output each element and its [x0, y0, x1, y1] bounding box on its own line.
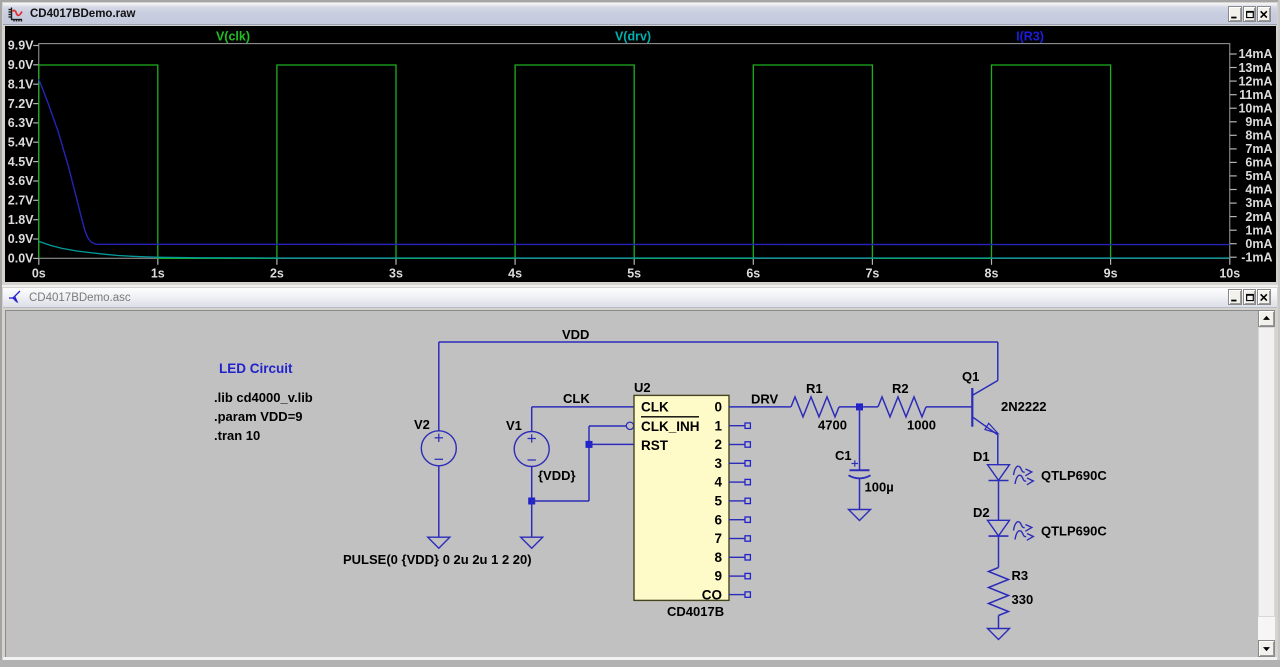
- LED D2: [988, 520, 1010, 536]
- capacitor C1 wire from node: [859, 407, 861, 470]
- svg-text:4: 4: [714, 475, 722, 490]
- junction RST branch: [586, 441, 593, 448]
- svg-text:10s: 10s: [1219, 267, 1240, 281]
- svg-text:R3: R3: [1012, 568, 1029, 583]
- svg-text:5s: 5s: [627, 267, 641, 281]
- svg-text:4.5V: 4.5V: [8, 155, 34, 169]
- svg-text:0mA: 0mA: [1245, 237, 1272, 251]
- svg-text:4700: 4700: [818, 418, 847, 433]
- svg-text:QTLP690C: QTLP690C: [1041, 468, 1107, 483]
- wire V1 top: [531, 407, 533, 432]
- junction DRV/R2/C1 node: [856, 403, 863, 410]
- svg-text:1: 1: [714, 418, 722, 433]
- Q1 emitter diagonal: [972, 417, 998, 435]
- cyan trace V(drv) decay: [39, 241, 1230, 258]
- svg-text:330: 330: [1012, 592, 1034, 607]
- svg-text:CLK_INH: CLK_INH: [641, 419, 700, 434]
- svg-text:2mA: 2mA: [1245, 210, 1272, 224]
- CLK_INH inversion bubble: [626, 422, 633, 429]
- wire V2 top to VDD rail: [438, 342, 440, 431]
- svg-text:6.3V: 6.3V: [8, 116, 34, 130]
- svg-text:100µ: 100µ: [865, 480, 894, 495]
- svg-text:PULSE(0 {VDD} 0 2u 2u 1 2 20): PULSE(0 {VDD} 0 2u 2u 1 2 20): [343, 552, 532, 567]
- svg-text:2s: 2s: [270, 267, 284, 281]
- resistor R2: [878, 397, 926, 417]
- svg-text:0.9V: 0.9V: [8, 232, 34, 246]
- svg-text:6s: 6s: [746, 267, 760, 281]
- U2 unconnected pin stubs with open squares: [729, 423, 750, 597]
- svg-text:D1: D1: [973, 449, 990, 464]
- D2 emission arrows: [1014, 522, 1034, 541]
- svg-text:DRV: DRV: [751, 392, 779, 407]
- svg-text:14mA: 14mA: [1238, 47, 1272, 61]
- svg-text:2.7V: 2.7V: [8, 194, 34, 208]
- svg-text:I(R3): I(R3): [1016, 30, 1044, 44]
- svg-text:{VDD}: {VDD}: [538, 468, 576, 483]
- junction at V1 bottom: [528, 498, 535, 505]
- svg-text:U2: U2: [634, 380, 651, 395]
- svg-text:R1: R1: [806, 381, 823, 396]
- svg-text:V1: V1: [506, 418, 522, 433]
- svg-text:0s: 0s: [32, 267, 46, 281]
- resistor R1: [791, 397, 839, 417]
- svg-text:1.8V: 1.8V: [8, 213, 34, 227]
- svg-text:11mA: 11mA: [1239, 88, 1272, 102]
- svg-text:LED Circuit: LED Circuit: [219, 361, 293, 376]
- wire DRV net from pin 0 to R1: [729, 406, 791, 408]
- wire R3 to ground: [998, 616, 1000, 629]
- wire C1 to ground: [859, 478, 861, 510]
- svg-text:.lib cd4000_v.lib: .lib cd4000_v.lib: [214, 390, 313, 405]
- svg-text:RST: RST: [641, 438, 669, 453]
- wire V2 bottom to ground: [438, 466, 440, 537]
- svg-text:8s: 8s: [985, 267, 999, 281]
- wire V1 bottom: [531, 467, 533, 502]
- svg-text:3s: 3s: [389, 267, 403, 281]
- Q1 emitter arrowhead: [985, 423, 998, 433]
- svg-text:-1mA: -1mA: [1241, 250, 1272, 264]
- C1 plus sign: [852, 460, 859, 466]
- svg-text:7.2V: 7.2V: [8, 97, 34, 111]
- svg-text:.tran 10: .tran 10: [214, 428, 260, 443]
- svg-text:QTLP690C: QTLP690C: [1041, 524, 1107, 539]
- svg-text:9.9V: 9.9V: [8, 39, 34, 53]
- svg-text:9s: 9s: [1104, 267, 1118, 281]
- ground below V1: [521, 537, 543, 548]
- svg-text:7mA: 7mA: [1245, 142, 1272, 156]
- green trace V(clk) square wave: [39, 65, 1111, 258]
- svg-text:VDD: VDD: [562, 327, 589, 342]
- voltage source V1: [514, 432, 549, 467]
- svg-text:9: 9: [714, 569, 722, 584]
- ground below C1: [849, 510, 871, 521]
- svg-text:C1: C1: [835, 448, 852, 463]
- ground below V2: [428, 537, 450, 548]
- capacitor C1: [849, 470, 871, 478]
- wire R2 to Q1 base: [926, 406, 972, 408]
- svg-text:R2: R2: [892, 381, 909, 396]
- window icon: schematic: [8, 290, 23, 305]
- ground below R3: [988, 629, 1010, 640]
- U2 pin name labels: [641, 400, 722, 603]
- wire VDD rail down to Q1 collector: [997, 342, 999, 381]
- wire R1 to junction: [839, 406, 860, 408]
- svg-text:0.0V: 0.0V: [8, 252, 34, 266]
- wire VDD rail: [439, 341, 998, 343]
- LED D1: [988, 465, 1010, 481]
- wire Q1 emitter to D1: [997, 435, 999, 465]
- svg-text:5: 5: [714, 494, 722, 509]
- svg-text:V(drv): V(drv): [615, 30, 651, 44]
- svg-text:V(clk): V(clk): [216, 30, 250, 44]
- transistor Q1 base bar: [971, 388, 973, 427]
- svg-text:3: 3: [714, 456, 722, 471]
- window buttons: [1228, 6, 1242, 22]
- svg-text:CLK: CLK: [563, 391, 590, 406]
- svg-text:7: 7: [714, 531, 722, 546]
- bottom frame: [3, 657, 1277, 660]
- voltage source V2: [421, 431, 456, 466]
- left axis voltage labels: [8, 39, 39, 266]
- D1 emission arrows: [1014, 466, 1034, 485]
- svg-text:6mA: 6mA: [1245, 156, 1272, 170]
- schematic client area: [5, 310, 1258, 657]
- wire junction to right: [532, 500, 589, 502]
- svg-text:D2: D2: [973, 505, 990, 520]
- Q1 collector diagonal: [972, 381, 998, 396]
- svg-text:2: 2: [714, 437, 722, 452]
- right axis current labels: [1230, 47, 1273, 264]
- svg-text:5.4V: 5.4V: [8, 135, 34, 149]
- wire junction to R2: [860, 406, 879, 408]
- wire to CLK_INH bubble: [589, 425, 626, 427]
- svg-text:9.0V: 9.0V: [8, 58, 34, 72]
- svg-text:12mA: 12mA: [1238, 74, 1272, 88]
- wire D2 to R3: [998, 536, 1000, 568]
- svg-text:9mA: 9mA: [1245, 115, 1272, 129]
- resistor R3: [989, 568, 1009, 616]
- blue trace I(R3) decay: [39, 79, 1230, 245]
- IC U2 body CD4017B: [634, 395, 729, 600]
- svg-text:1mA: 1mA: [1245, 223, 1272, 237]
- wire V1 ground stem: [531, 501, 533, 537]
- plot client area: [5, 26, 1276, 282]
- svg-text:CD4017B: CD4017B: [667, 604, 724, 619]
- svg-text:3.6V: 3.6V: [8, 174, 34, 188]
- title bar: [3, 3, 1277, 25]
- svg-text:1000: 1000: [907, 418, 936, 433]
- plot border: [39, 44, 1230, 259]
- svg-text:8.1V: 8.1V: [8, 77, 34, 91]
- svg-text:3mA: 3mA: [1245, 196, 1272, 210]
- svg-text:1s: 1s: [151, 267, 165, 281]
- wire D1 to D2: [998, 481, 1000, 521]
- svg-text:8mA: 8mA: [1245, 129, 1272, 143]
- wire up to CLK_INH: [588, 426, 590, 501]
- title bar (inactive): [3, 288, 1277, 308]
- svg-text:CO: CO: [702, 588, 722, 603]
- svg-text:7s: 7s: [865, 267, 879, 281]
- svg-text:4s: 4s: [508, 267, 522, 281]
- time axis labels: [32, 258, 1240, 280]
- vertical scrollbar: [1258, 310, 1275, 657]
- svg-text:.param VDD=9: .param VDD=9: [214, 409, 303, 424]
- svg-text:Q1: Q1: [962, 369, 979, 384]
- svg-text:6: 6: [714, 512, 722, 527]
- svg-text:5mA: 5mA: [1245, 169, 1272, 183]
- svg-text:0: 0: [714, 400, 722, 415]
- svg-text:4mA: 4mA: [1245, 183, 1272, 197]
- wire CLK net: [532, 406, 634, 408]
- svg-text:2N2222: 2N2222: [1001, 399, 1047, 414]
- svg-text:8: 8: [714, 550, 722, 565]
- wire to RST pin: [589, 443, 634, 445]
- window icon: waveform: [8, 6, 24, 22]
- svg-text:13mA: 13mA: [1238, 61, 1272, 75]
- svg-text:CLK: CLK: [641, 400, 669, 415]
- svg-text:V2: V2: [414, 417, 430, 432]
- svg-text:10mA: 10mA: [1238, 101, 1272, 115]
